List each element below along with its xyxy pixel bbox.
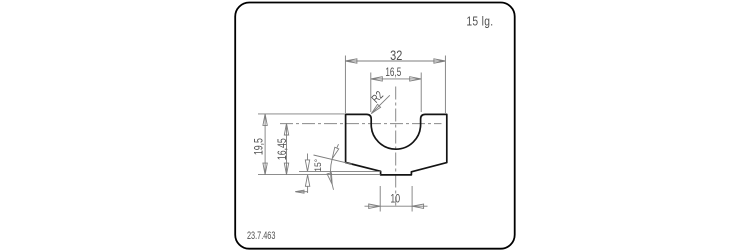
svg-text:19,5: 19,5 [252, 138, 266, 155]
dim 32 line [345, 60, 445, 62]
bottom extension line B [299, 170, 380, 172]
svg-text:15 lg.: 15 lg. [466, 13, 493, 29]
dim 16,5 line [371, 78, 421, 80]
svg-text:15°: 15° [312, 158, 323, 171]
dim 19,5 top extension line [258, 113, 345, 115]
dim 10 extension lines [380, 186, 412, 212]
svg-text:R2: R2 [370, 89, 387, 106]
part outline [346, 114, 447, 174]
centerline vertical [395, 87, 397, 206]
angle 15 bottom arrow [327, 173, 333, 190]
border frame [235, 3, 515, 249]
bottom extension line A [258, 174, 380, 176]
dim 19,5 line [264, 114, 266, 175]
radius leader R2 [371, 95, 390, 113]
dim 16,45 arrows [284, 124, 288, 175]
dim 10 line [365, 205, 428, 207]
svg-text:16,5: 16,5 [385, 67, 401, 80]
centerline horizontal [280, 123, 442, 125]
dim 16,5 arrows [371, 77, 421, 81]
svg-text:32: 32 [390, 48, 402, 64]
dim 1 lower arrow [305, 175, 309, 193]
dim 32 extension lines [345, 56, 445, 114]
dim 16,45 line [286, 124, 288, 175]
dim 16,5 extension lines [371, 73, 421, 113]
svg-text:10: 10 [390, 192, 400, 206]
dim 10 arrows [369, 204, 424, 208]
dim 32 arrows [345, 59, 445, 63]
svg-text:16,45: 16,45 [276, 138, 290, 160]
svg-text:23.7.463: 23.7.463 [247, 229, 275, 242]
angle 15 arc [331, 159, 333, 185]
angle 15 top arrow [332, 144, 339, 158]
angle 15 ray [314, 155, 353, 164]
dim 19,5 arrows [263, 114, 267, 175]
dim 1 upper arrow [305, 154, 309, 172]
dim 1 leader [296, 191, 308, 193]
